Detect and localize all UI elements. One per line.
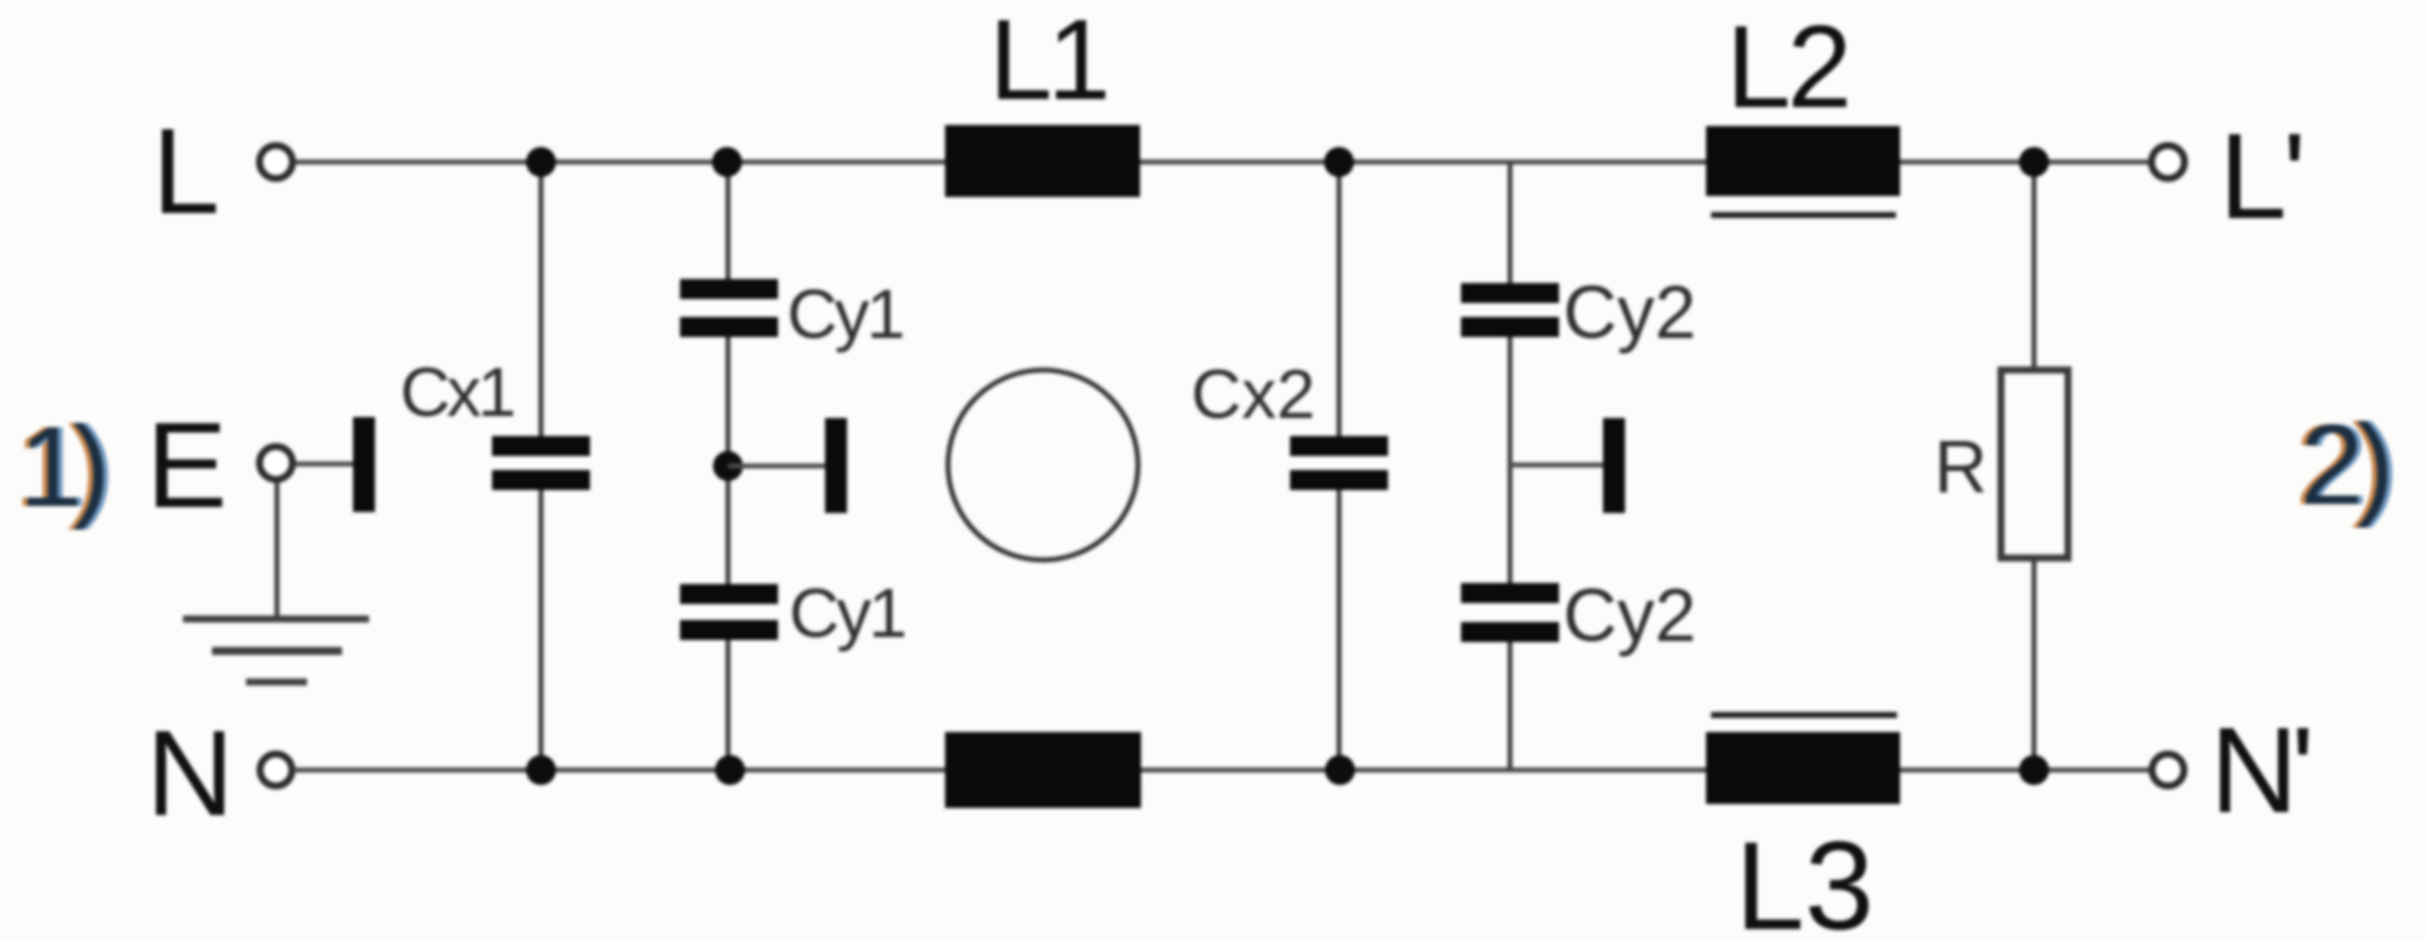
node N' terminal circle bbox=[2152, 754, 2184, 786]
junction top rail at R bbox=[2019, 147, 2049, 177]
junction top rail at Cx2 bbox=[1324, 147, 1354, 177]
node Cy1 midpoint junction bbox=[713, 451, 743, 481]
capacitor Cx1 bottom plate bbox=[492, 470, 590, 490]
capacitor Cy2 lower bottom plate bbox=[1461, 622, 1559, 642]
capacitor Cy2 upper wire bbox=[1508, 162, 1513, 294]
junction bottom rail at Cx1 bbox=[526, 755, 556, 785]
capacitor Cx1 wire lower bbox=[539, 480, 544, 770]
inductor L1 top winding body bbox=[945, 125, 1140, 197]
capacitor Cy1 upper top plate bbox=[680, 279, 778, 299]
capacitor Cx2 wire upper bbox=[1337, 162, 1342, 446]
inductor L2 winding body bbox=[1706, 126, 1900, 196]
capacitor Cy1 lower wire bbox=[726, 630, 731, 770]
wire bottom rail left segment bbox=[294, 768, 945, 773]
capacitor Cy1 lower top plate bbox=[680, 584, 778, 604]
node E terminal circle bbox=[260, 447, 293, 480]
capacitor Cy1 middle wire bbox=[726, 327, 731, 594]
capacitor Cy2 middle wire bbox=[1508, 327, 1513, 593]
capacitor Cy2 upper top plate bbox=[1461, 283, 1559, 303]
svg-text:Cy1: Cy1 bbox=[787, 275, 903, 353]
svg-text:E: E bbox=[146, 397, 227, 533]
svg-text:Cx1: Cx1 bbox=[400, 353, 514, 431]
inductor L2 core line bbox=[1711, 212, 1896, 218]
svg-text:Cy1: Cy1 bbox=[789, 574, 905, 652]
capacitor Cy1 upper bottom plate bbox=[680, 317, 778, 337]
capacitor Cx2 top plate bbox=[1290, 436, 1388, 456]
wire Cy1 midpoint to chassis bar bbox=[728, 464, 825, 469]
svg-text:N: N bbox=[146, 705, 234, 841]
resistor R wire upper bbox=[2032, 162, 2037, 372]
svg-text:L: L bbox=[152, 103, 220, 239]
wire bottom rail right segment bbox=[1900, 768, 2151, 773]
resistor R wire lower bbox=[2032, 556, 2037, 770]
capacitor Cy2 lower wire bbox=[1508, 632, 1513, 770]
chassis bar at E bbox=[353, 417, 375, 512]
wire bottom rail middle segment bbox=[1141, 768, 1706, 773]
inductor L3 winding body bbox=[1706, 732, 1900, 804]
svg-text:R: R bbox=[1934, 425, 1987, 508]
common-mode choke core circle bbox=[948, 370, 1138, 560]
svg-text:L3: L3 bbox=[1735, 817, 1874, 939]
node N terminal circle bbox=[260, 754, 292, 786]
wire Cy2 midpoint to chassis bar bbox=[1510, 463, 1603, 468]
wire top rail middle segment bbox=[1140, 160, 1706, 165]
wire top rail left segment bbox=[295, 160, 945, 165]
svg-text:L': L' bbox=[2219, 108, 2302, 244]
svg-text:L1: L1 bbox=[989, 0, 1106, 124]
wire top rail right segment bbox=[1900, 160, 2149, 165]
inductor L1 bottom winding body bbox=[945, 732, 1141, 808]
chassis bar at Cy1 midpoint bbox=[825, 418, 847, 513]
capacitor Cy2 lower top plate bbox=[1461, 583, 1559, 603]
capacitor Cx2 wire lower bbox=[1337, 480, 1342, 770]
ground symbol line 1 bbox=[183, 616, 369, 623]
svg-text:1): 1) bbox=[19, 404, 103, 531]
capacitor Cx1 top plate bbox=[492, 436, 590, 456]
junction bottom rail at Cy1 bbox=[715, 755, 745, 785]
junction top rail at Cx1 bbox=[526, 147, 556, 177]
ground symbol line 2 bbox=[212, 647, 342, 655]
junction bottom rail at R bbox=[2019, 755, 2049, 785]
svg-text:L2: L2 bbox=[1726, 1, 1848, 132]
capacitor Cx1 wire upper bbox=[539, 162, 544, 446]
node L' terminal circle bbox=[2152, 146, 2185, 179]
svg-text:N': N' bbox=[2210, 702, 2309, 838]
junction bottom rail at Cx2 bbox=[1325, 755, 1355, 785]
capacitor Cy1 upper wire bbox=[726, 162, 731, 290]
inductor L3 core line bbox=[1711, 712, 1897, 718]
svg-text:Cx2: Cx2 bbox=[1191, 355, 1315, 433]
ground symbol line 3 bbox=[246, 679, 307, 686]
svg-text:Cy2: Cy2 bbox=[1563, 573, 1696, 657]
resistor R body bbox=[2001, 370, 2068, 558]
capacitor Cx2 bottom plate bbox=[1290, 470, 1388, 490]
wire E to chassis bar bbox=[296, 462, 353, 467]
capacitor Cy1 lower bottom plate bbox=[680, 620, 778, 640]
node L terminal circle bbox=[260, 146, 293, 179]
svg-text:Cy2: Cy2 bbox=[1563, 270, 1696, 354]
capacitor Cy2 upper bottom plate bbox=[1461, 317, 1559, 337]
svg-text:2): 2) bbox=[2300, 402, 2387, 529]
wire E down to ground bbox=[275, 482, 280, 622]
junction top rail at Cy1 bbox=[712, 147, 742, 177]
chassis bar at Cy2 midpoint bbox=[1603, 418, 1625, 513]
